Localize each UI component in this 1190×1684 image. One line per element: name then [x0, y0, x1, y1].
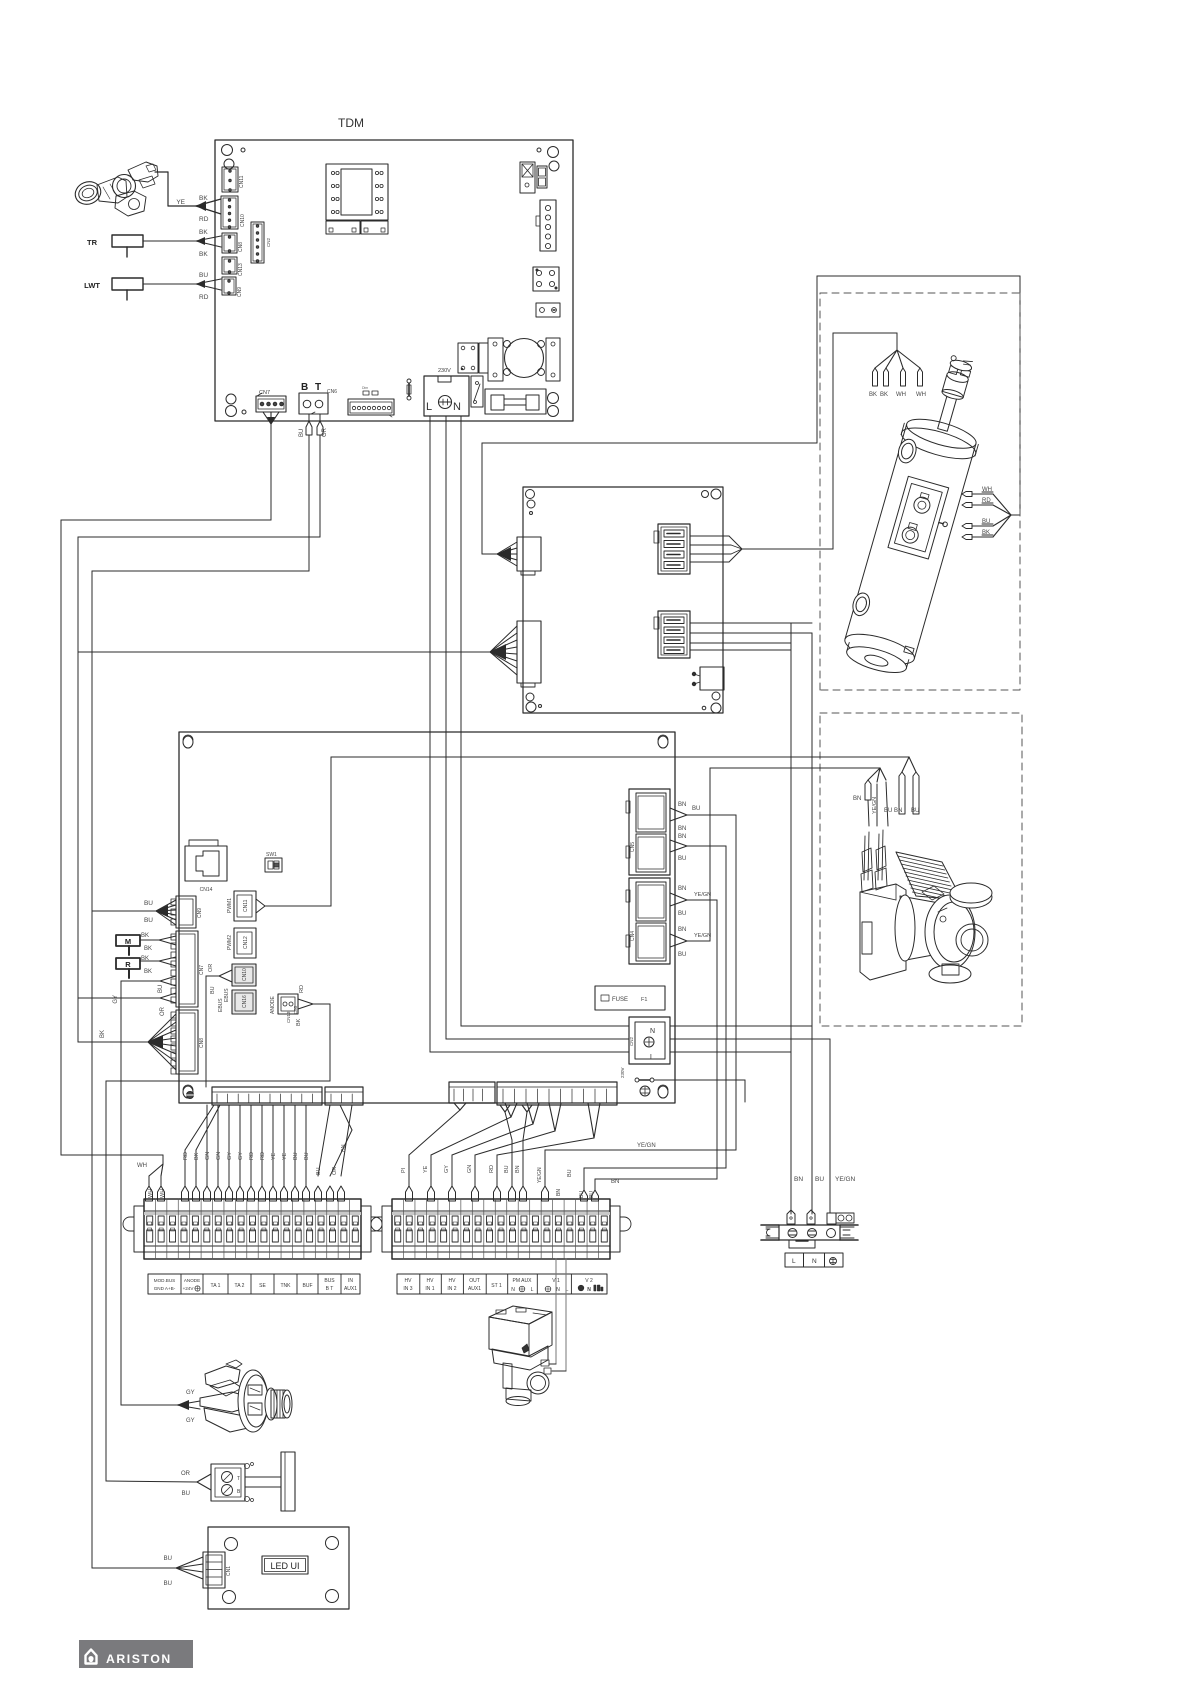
igniter transformer (OR/BU component): [106, 1452, 295, 1511]
svg-text:OR: OR: [181, 1471, 191, 1477]
svg-text:EBUS: EBUS: [224, 988, 230, 1002]
svg-text:RD: RD: [183, 1152, 189, 1160]
svg-text:CN8: CN8: [238, 242, 244, 252]
svg-text:BU: BU: [182, 1491, 190, 1497]
transformer T1 (TDM bottom right): [488, 338, 503, 381]
svg-text:PWM2: PWM2: [227, 935, 233, 950]
svg-text:B: B: [301, 382, 308, 393]
wire WH split to terminals 1-2: [162, 1155, 164, 1164]
svg-text:BN: BN: [678, 826, 686, 832]
wires J1/J2 down to left terminal block: [185, 1105, 214, 1150]
svg-text:ST 1: ST 1: [491, 1283, 502, 1289]
svg-text:BK: BK: [141, 933, 149, 939]
component pair small top-right: [537, 166, 547, 188]
svg-text:RD: RD: [260, 1152, 266, 1160]
svg-text:BN: BN: [678, 886, 686, 892]
HE sensor wire fan BK BK WH WH: [875, 350, 897, 368]
svg-text:CN13: CN13: [286, 1011, 291, 1023]
LED UI silkscreen box: [262, 1556, 308, 1574]
HE flow-switch wire fan WH RD BU BK: [993, 494, 1011, 515]
svg-text:ARISTON: ARISTON: [106, 1652, 172, 1666]
connector CN7 (main left): [176, 931, 198, 1007]
wire net B: ignition board to HE sensor: [741, 548, 833, 550]
svg-text:GY: GY: [227, 1152, 233, 1160]
svg-text:CN8: CN8: [199, 1038, 205, 1048]
svg-text:YE/GN: YE/GN: [872, 797, 878, 814]
svg-text:LWT: LWT: [84, 281, 100, 290]
connector CN14 RJ socket (main): [185, 846, 227, 881]
connector left-bottom (ignition board) with 8-wire fan: [517, 621, 541, 683]
bottom connector J3: [449, 1082, 495, 1103]
svg-text:ANODE: ANODE: [270, 996, 276, 1014]
svg-text:WH: WH: [137, 1163, 147, 1169]
svg-text:IN 1: IN 1: [425, 1286, 434, 1292]
wire GY from CN7 to gas valve: [160, 976, 176, 981]
svg-text:HV: HV: [405, 1278, 413, 1284]
svg-text:BK: BK: [144, 969, 152, 975]
spade terminals left block: [146, 1186, 153, 1201]
svg-text:CN13: CN13: [238, 263, 244, 276]
svg-text:BU: BU: [678, 856, 686, 862]
svg-text:RD: RD: [199, 294, 209, 301]
CN5 wire arrows (BN BU / BN BU): [670, 808, 687, 815]
svg-text:IN 3: IN 3: [403, 1286, 412, 1292]
label row left terminal block: [148, 1274, 360, 1294]
svg-text:YE: YE: [271, 1152, 277, 1160]
wire earth from TDM to CN2 main board: [445, 416, 447, 1039]
wire BU elbow to V2 terminal: [595, 1178, 717, 1180]
relay small blocks left of transformer: [458, 343, 478, 373]
wire PWM to pump stubs (BN BU unconnected): [331, 756, 909, 758]
svg-text:CN2: CN2: [266, 238, 271, 247]
connector CN11 (TDM): [222, 167, 238, 192]
svg-text:L: L: [531, 1287, 534, 1293]
bottom connector J1 (11 pin): [212, 1087, 322, 1105]
svg-text:AUX1: AUX1: [468, 1286, 481, 1292]
screw holes ignition board: [526, 490, 535, 499]
connector CN9 (TDM): [222, 277, 236, 295]
svg-text:BK: BK: [199, 229, 208, 236]
wire L (BN) main CN2 to mains terminal: [670, 1051, 791, 1053]
svg-text:SE: SE: [259, 1283, 266, 1289]
svg-text:Dim: Dim: [362, 386, 368, 390]
svg-text:CN12: CN12: [243, 936, 249, 949]
svg-text:GN: GN: [205, 1152, 211, 1160]
svg-text:IN 2: IN 2: [447, 1286, 456, 1292]
wire BK to CN8 fan (main board): [78, 1041, 148, 1043]
terminal block right (high voltage): [392, 1199, 610, 1259]
connector CN8 (main left): [176, 1010, 198, 1074]
connector left-top (ignition board) with 5-wire fan: [517, 537, 541, 571]
component small (TDM right): [536, 303, 560, 317]
HE sensor (3D) on top: [938, 394, 958, 431]
svg-text:YE/GN: YE/GN: [694, 892, 711, 898]
wire YE/GN elbow to V1 terminal: [545, 1149, 736, 1151]
svg-text:BN: BN: [556, 1189, 562, 1196]
svg-text:BU: BU: [815, 1176, 824, 1183]
wire net A: ignition board to heat-exchanger flow switch: [482, 553, 497, 555]
svg-text:CN11: CN11: [239, 175, 245, 188]
svg-text:CN7: CN7: [199, 965, 205, 975]
svg-text:BN: BN: [678, 927, 686, 933]
svg-text:BK: BK: [199, 195, 208, 202]
svg-text:CN4: CN4: [630, 931, 636, 941]
svg-text:FUSE: FUSE: [612, 997, 628, 1003]
svg-text:YE: YE: [282, 1152, 288, 1160]
svg-text:GY: GY: [186, 1390, 195, 1396]
wire YE/GN from fuse area down right: [654, 1079, 745, 1081]
svg-text:BN: BN: [678, 802, 686, 808]
svg-text:BU: BU: [678, 911, 686, 917]
svg-text:CN9: CN9: [237, 287, 243, 297]
arrow fan right-top connector to wire (pencil): [690, 535, 729, 537]
connector PWM2 CN12 (main): [234, 928, 256, 958]
wires J3 fan to right terminal block (PI YE GY GN RD): [454, 1103, 460, 1110]
connector CN5 8-pin (TDM bottom): [363, 391, 369, 395]
svg-text:HV: HV: [449, 1278, 457, 1284]
svg-text:OR: OR: [322, 427, 328, 437]
svg-text:BN: BN: [515, 1165, 521, 1173]
svg-text:OR: OR: [332, 1167, 338, 1175]
svg-text:BU: BU: [164, 1581, 172, 1587]
connector CN13 ANODE C35 (main): [278, 994, 298, 1014]
svg-text:V 2: V 2: [585, 1278, 593, 1284]
wire earth YE/GN CN2 to mains terminal: [670, 1038, 830, 1040]
svg-text:YE: YE: [423, 1165, 429, 1173]
svg-text:CN10: CN10: [242, 968, 248, 981]
svg-text:CN7: CN7: [259, 390, 270, 396]
crossing wires BU OR to terminals: [318, 1105, 330, 1176]
svg-text:SW1: SW1: [266, 852, 277, 858]
svg-text:N: N: [587, 1287, 591, 1293]
connector CN16 EBUS (main): [232, 990, 256, 1014]
svg-text:L: L: [792, 1258, 796, 1265]
svg-text:BK: BK: [296, 1018, 302, 1026]
svg-text:BK: BK: [199, 251, 208, 258]
svg-text:BU: BU: [589, 1191, 595, 1198]
svg-text:R: R: [125, 960, 131, 969]
svg-text:BK: BK: [141, 956, 149, 962]
wire BN elbow to V2 terminal: [584, 1167, 726, 1169]
svg-text:BU: BU: [164, 1556, 172, 1562]
svg-text:BU: BU: [199, 272, 208, 279]
connector CN8 (TDM): [222, 233, 237, 253]
svg-text:C35: C35: [293, 1005, 298, 1014]
svg-text:N: N: [650, 1028, 655, 1035]
svg-text:T: T: [237, 1476, 240, 1482]
relay R box: [116, 958, 140, 969]
svg-text:TR: TR: [87, 238, 98, 247]
gas valve / fan assembly (3D): [121, 1360, 292, 1432]
connector CN5 (main right): [629, 789, 670, 875]
svg-text:PWM1: PWM1: [227, 898, 233, 913]
connector CN10 (TDM): [221, 196, 238, 229]
dashed box: heat exchanger assembly: [820, 293, 1020, 690]
wire electrode to CN10 (YE): [155, 171, 168, 173]
svg-text:CN9: CN9: [197, 908, 203, 918]
svg-text:TA 1: TA 1: [211, 1283, 221, 1289]
svg-text:RD: RD: [489, 1165, 495, 1173]
connector CN9 (main left) with BU BU wires: [176, 896, 196, 928]
svg-text:N: N: [511, 1287, 515, 1293]
svg-text:BU: BU: [299, 429, 305, 437]
svg-text:L: L: [426, 401, 432, 413]
svg-text:BU: BU: [567, 1169, 573, 1177]
board main (display/control) outline: [179, 732, 675, 1103]
svg-text:BK: BK: [100, 1030, 106, 1038]
wire BU/OR from CN6-T bus to CN7: [160, 993, 176, 998]
svg-text:BK: BK: [880, 392, 888, 398]
svg-text:CN14: CN14: [200, 887, 213, 893]
svg-text:EBUS: EBUS: [218, 998, 224, 1012]
svg-text:TDM: TDM: [338, 116, 364, 130]
svg-text:CN16: CN16: [242, 995, 248, 1008]
svg-text:BU: BU: [504, 1165, 510, 1173]
svg-text:YE/GN: YE/GN: [637, 1143, 656, 1149]
connector CN2 vertical (TDM): [251, 222, 264, 263]
svg-text:TNK: TNK: [281, 1283, 292, 1289]
wire N (BU) main CN2 to mains terminal: [670, 1025, 812, 1027]
board TDM outline: [215, 140, 573, 421]
svg-text:BU: BU: [144, 900, 153, 907]
wire OR from CN6-T down: [319, 414, 321, 421]
connector PWM1 CN11 (main): [234, 891, 256, 921]
svg-text:BN: BN: [794, 1176, 803, 1183]
component top-right (TDM) with X mark: [520, 162, 535, 193]
svg-text:BN: BN: [678, 834, 686, 840]
vertical fuse component (TDM): [407, 379, 411, 383]
svg-text:WH: WH: [916, 392, 926, 398]
svg-text:BK: BK: [869, 392, 877, 398]
relay blocks below IC: [326, 221, 360, 234]
IC chip U1 (TDM centre): [326, 164, 388, 220]
svg-text:BUS: BUS: [324, 1278, 335, 1284]
pump assembly (3D): [860, 830, 992, 983]
svg-text:T: T: [315, 382, 321, 393]
svg-text:BU: BU: [210, 986, 216, 994]
terminal block left (low voltage): [144, 1199, 361, 1259]
svg-text:BK: BK: [194, 1152, 200, 1160]
fuse F1 (main board): [595, 986, 665, 1010]
svg-text:HV: HV: [427, 1278, 435, 1284]
wire junction to ignition board big connector: [78, 651, 490, 653]
relay K1 (TDM right): [533, 267, 559, 291]
svg-text:CN11: CN11: [243, 899, 249, 912]
svg-text:BU: BU: [579, 1191, 585, 1198]
svg-text:BK: BK: [144, 946, 152, 952]
svg-text:CN2: CN2: [629, 1037, 634, 1046]
svg-text:BU: BU: [678, 952, 686, 958]
svg-text:GY: GY: [238, 1152, 244, 1160]
svg-text:WH: WH: [896, 392, 906, 398]
svg-text:YE/GN: YE/GN: [537, 1167, 543, 1183]
svg-text:230V: 230V: [620, 1067, 625, 1078]
connector CN1 (LED UI): [203, 1552, 225, 1588]
ignition electrode assembly (top left): [72, 162, 158, 216]
svg-text:N: N: [812, 1258, 817, 1265]
svg-text:OUT: OUT: [469, 1278, 480, 1284]
pump terminal box: [860, 884, 906, 980]
connector strip right (TDM): [540, 200, 556, 251]
svg-text:TA 2: TA 2: [235, 1283, 245, 1289]
pump cable glands: [864, 836, 865, 880]
svg-text:BU: BU: [911, 808, 919, 814]
svg-text:YE: YE: [176, 199, 185, 206]
svg-text:BU: BU: [316, 1167, 322, 1175]
CN4 wire arrows (BN YE/GN BU x2): [670, 893, 687, 900]
mains bracket below: [789, 1240, 815, 1248]
svg-text:GN: GN: [216, 1152, 222, 1160]
wires V1 terminals down to valve + BN label: [555, 1259, 557, 1364]
wire N from TDM to CN2 main board: [460, 416, 462, 1026]
board ignition (middle) outline: [523, 487, 723, 713]
label box L N earth: [785, 1253, 843, 1267]
wire verticals from CN5/CN4 arrows down: [735, 815, 737, 1150]
svg-text:BU: BU: [304, 1152, 310, 1160]
svg-text:CN5: CN5: [630, 842, 636, 852]
fuse F (TDM bottom right): [485, 389, 546, 414]
wire CN4 to pump connector (BN YE/GN BU): [710, 767, 880, 769]
mains terminal strip L N earth: [779, 1225, 840, 1240]
svg-text:RD: RD: [249, 1152, 255, 1160]
svg-text:OR: OR: [160, 1006, 166, 1016]
svg-text:BN: BN: [894, 808, 902, 814]
mains spade terminals: [787, 1210, 795, 1224]
svg-text:BUF: BUF: [303, 1283, 313, 1289]
logo ARISTON: [79, 1640, 193, 1668]
svg-text:N: N: [453, 401, 461, 413]
svg-text:BN: BN: [611, 1179, 619, 1185]
svg-text:B T: B T: [326, 1286, 334, 1292]
connector CN4 (main right): [629, 878, 670, 964]
svg-text:CN10: CN10: [240, 214, 246, 227]
wire CN13 to igniter (RD/BK): [298, 999, 313, 1004]
svg-text:L: L: [650, 1054, 654, 1061]
svg-text:ANODE: ANODE: [184, 1278, 200, 1283]
heat exchanger cylinder (3D): [837, 348, 1000, 680]
svg-text:GY: GY: [186, 1418, 195, 1424]
svg-text:GY: GY: [444, 1165, 450, 1173]
screw holes main board: [183, 736, 193, 748]
svg-text:BU: BU: [144, 917, 153, 924]
motorised valve V1 (3D): [489, 1306, 552, 1406]
wires J4 to PM AUX terminals (BU BN): [500, 1105, 505, 1112]
bottom connector J4: [497, 1082, 617, 1105]
connector CN10 (main): [232, 964, 256, 986]
svg-text:LED UI: LED UI: [270, 1561, 299, 1571]
pump heatsink ribs: [898, 856, 943, 866]
svg-text:230V: 230V: [438, 368, 451, 374]
connector right-top 4-slot (ignition board): [658, 524, 690, 574]
svg-text:GN: GN: [467, 1165, 473, 1173]
connector right-bottom 4-slot (ignition board): [658, 611, 690, 658]
bottom connector J2 (4 pin): [325, 1087, 363, 1105]
svg-text:MOD.BUS: MOD.BUS: [154, 1278, 175, 1283]
svg-text:IN: IN: [348, 1278, 353, 1284]
svg-text:+24V: +24V: [183, 1286, 195, 1291]
svg-text:RD: RD: [199, 216, 209, 223]
relay M box: [116, 935, 140, 946]
switch (TDM): [471, 376, 483, 407]
svg-text:GY: GY: [113, 995, 119, 1004]
pump head volute: [925, 895, 975, 969]
fuse + earth screw (main board bottom right): [635, 1078, 639, 1082]
svg-text:BN: BN: [853, 796, 861, 802]
wire BU from CN6-B to LED UI bus: [308, 414, 310, 421]
earth screw (main board bottom): [187, 1092, 194, 1099]
svg-text:M: M: [125, 937, 131, 946]
svg-text:BU: BU: [293, 1152, 299, 1160]
svg-text:N: N: [556, 1287, 560, 1293]
svg-text:PM AUX: PM AUX: [513, 1278, 533, 1284]
svg-text:F1: F1: [641, 997, 647, 1003]
svg-text:BN: BN: [341, 1144, 347, 1152]
svg-text:YE/GN: YE/GN: [835, 1176, 856, 1183]
svg-text:GND A+B-: GND A+B-: [154, 1286, 176, 1291]
svg-text:YE/GN: YE/GN: [694, 933, 711, 939]
label row right terminal block: [397, 1274, 607, 1294]
wire CN7(TDM) down-left bus: [263, 412, 271, 424]
dashed box: pump assembly: [820, 713, 1022, 1026]
pump motor body: [900, 896, 960, 960]
connector CN13 (TDM): [222, 257, 237, 274]
wires ignition board right connector to mains verticals: [690, 622, 812, 624]
svg-text:CN1: CN1: [226, 1566, 232, 1576]
board LED UI: [208, 1527, 349, 1609]
svg-text:OR: OR: [208, 964, 214, 972]
svg-text:AUX1: AUX1: [344, 1286, 357, 1292]
svg-text:BU: BU: [884, 808, 892, 814]
screw holes TDM corners: [222, 145, 233, 156]
svg-text:BU: BU: [692, 806, 700, 812]
svg-text:PI: PI: [401, 1167, 407, 1173]
wire L from TDM to CN2 main board: [429, 416, 431, 1052]
svg-text:BU: BU: [158, 985, 164, 993]
component X1 (ignition board bottom right): [700, 667, 724, 690]
svg-text:RD: RD: [299, 985, 305, 993]
connector CN2 mains (main board): [629, 1017, 670, 1064]
